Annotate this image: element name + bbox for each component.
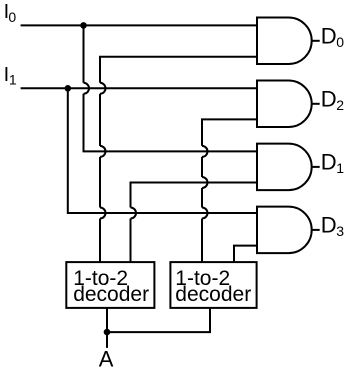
svg-text:D: D	[321, 150, 337, 175]
AND gate D1	[257, 144, 312, 191]
hop at V4 x H7	[131, 208, 137, 219]
wire A stub below decoder1	[106, 308, 108, 348]
svg-text:2: 2	[336, 97, 344, 113]
wire I0 horizontal	[21, 24, 257, 26]
hop at V5 x H5	[202, 146, 208, 157]
hop at V2 x I1	[84, 83, 90, 94]
svg-text:D: D	[321, 213, 337, 238]
AND gate D0	[257, 18, 312, 65]
output stub D2	[312, 103, 320, 105]
wire V1: I1 dot down to AND4 top input	[68, 88, 257, 213]
wire I1 horizontal	[21, 87, 257, 89]
svg-text:decoder: decoder	[73, 283, 149, 306]
svg-text:0: 0	[336, 34, 344, 50]
svg-text:D: D	[321, 86, 337, 111]
AND gate D2	[257, 81, 312, 128]
wire V2: I0 dot down to AND3 top input (hop gap at I1)	[83, 25, 85, 82]
wire V3: decoder1 out1 up to AND1 bottom input (hops at 88.3,151.4,212.6)	[100, 57, 257, 83]
svg-text:0: 0	[8, 9, 16, 25]
junction dot on I1	[65, 85, 72, 92]
svg-text:1: 1	[336, 160, 344, 176]
wire decoder2 bottom to A node	[107, 308, 210, 332]
junction dot at A	[104, 329, 111, 336]
svg-text:D: D	[321, 23, 337, 48]
hop at V3 x H5	[100, 146, 106, 157]
decoder box 2	[170, 262, 256, 308]
hop at V3 x I1	[100, 83, 106, 94]
hop at V5 x H6	[202, 177, 208, 188]
hop at V5 x H7	[202, 208, 208, 219]
wire V6: decoder2 out2 up to AND4 bottom input	[234, 246, 257, 262]
AND gate D3	[257, 207, 312, 254]
decoder box 1	[66, 262, 154, 308]
svg-text:A: A	[99, 346, 114, 371]
hop at V3 x H7	[100, 208, 106, 219]
output stub D1	[312, 166, 320, 168]
output stub D3	[312, 229, 320, 231]
junction dot on I0	[80, 22, 87, 29]
svg-text:decoder: decoder	[175, 283, 251, 306]
wire V4: decoder1 out2 up to AND3 bottom input (hop at 212.6)	[131, 183, 258, 208]
svg-text:3: 3	[336, 223, 344, 239]
wire V5: decoder2 out1 up to AND2 bottom input (hops at 151.4,182.5,212.6)	[202, 119, 257, 145]
svg-text:1: 1	[9, 72, 17, 88]
output stub D0	[312, 40, 320, 42]
